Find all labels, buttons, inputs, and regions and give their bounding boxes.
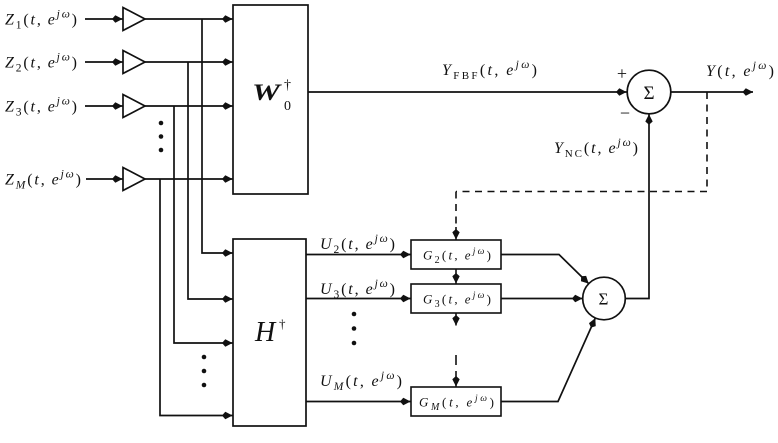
svg-text:W: W <box>252 80 282 105</box>
node ZM input label <box>5 169 81 192</box>
plus sign <box>617 64 627 84</box>
svg-text:Σ: Σ <box>643 83 654 104</box>
wire A3 to W0 <box>145 105 233 107</box>
wire ZM input arrow <box>86 178 123 180</box>
amplifier A2 <box>123 51 145 74</box>
ellipsis U channels <box>352 312 357 346</box>
wire arrow G2 to G3 <box>455 270 457 284</box>
svg-text:−: − <box>620 103 630 123</box>
svg-text:YNC(t, ejω): YNC(t, ejω) <box>554 137 638 160</box>
node Y output label <box>706 60 774 80</box>
block GM adaptive filter <box>411 387 501 416</box>
wire G2 to sum2 <box>501 255 589 284</box>
block W0 fixed beamformer <box>233 5 308 194</box>
wire A2 to W0 <box>145 61 233 63</box>
wire arrow into GM <box>455 371 457 387</box>
wire UM from H to GM <box>306 401 411 403</box>
minus sign <box>620 103 630 123</box>
svg-text:+: + <box>617 64 627 84</box>
svg-text:†: † <box>279 316 286 331</box>
svg-text:H: H <box>254 317 277 348</box>
svg-text:UM(t, ejω): UM(t, ejω) <box>320 370 402 393</box>
sum node S1 <box>627 70 671 114</box>
node UM label <box>320 370 402 393</box>
svg-text:Σ: Σ <box>599 290 609 309</box>
sum node S2 <box>583 277 626 320</box>
svg-text:0: 0 <box>284 99 291 114</box>
wire GM to sum2 <box>501 318 595 401</box>
svg-text:Z3(t, ejω): Z3(t, ejω) <box>5 96 77 119</box>
amplifier A3 <box>123 95 145 118</box>
node YNC label <box>554 137 638 160</box>
svg-text:U3(t, ejω): U3(t, ejω) <box>320 278 395 301</box>
wire branch 1 to H <box>202 19 233 253</box>
wire G3 to sum2 <box>501 298 582 300</box>
block H blocking matrix <box>233 239 306 426</box>
wire dash segment above GM <box>455 355 457 365</box>
node U3 label <box>320 278 395 301</box>
block G3 adaptive filter <box>411 284 501 313</box>
wire sum2 to sum1 <box>625 114 649 298</box>
svg-text:†: † <box>284 78 291 93</box>
svg-text:Z2(t, ejω): Z2(t, ejω) <box>5 52 77 75</box>
wire A1 to W0 <box>145 18 233 20</box>
ellipsis H inputs <box>202 355 207 388</box>
block G2 adaptive filter <box>411 240 501 269</box>
wire AM to W0 <box>145 178 233 180</box>
wire arrow below G3 <box>455 314 457 326</box>
svg-text:ZM(t, ejω): ZM(t, ejω) <box>5 169 81 192</box>
svg-text:U2(t, ejω): U2(t, ejω) <box>320 233 395 256</box>
wire Z2 input arrow <box>85 61 123 63</box>
wire dashed feedback into G2 <box>455 192 457 240</box>
wire U2 from H to G2 <box>306 254 411 256</box>
svg-text:Y(t, ejω): Y(t, ejω) <box>706 60 774 80</box>
wire branch 3 to H <box>174 106 233 343</box>
node YFBF label <box>442 59 537 82</box>
ellipsis input channels <box>159 121 164 153</box>
node Z3 input label <box>5 96 77 119</box>
wire YFBF to sum1 <box>308 91 627 93</box>
wire branch 2 to H <box>188 62 233 299</box>
wire output Y <box>671 91 753 93</box>
node Z2 input label <box>5 52 77 75</box>
wire U3 from H to G3 <box>306 298 411 300</box>
wire Z3 input arrow <box>85 105 123 107</box>
svg-text:Z1(t, ejω): Z1(t, ejω) <box>5 9 77 32</box>
wire dashed feedback vertical from output <box>706 92 708 192</box>
amplifier AM <box>123 168 145 191</box>
wire Z1 input arrow <box>85 18 123 20</box>
wire dashed feedback horizontal <box>456 191 707 193</box>
node Z1 input label <box>5 9 77 32</box>
wire branch M to H <box>160 179 233 416</box>
svg-text:YFBF(t, ejω): YFBF(t, ejω) <box>442 59 537 82</box>
node U2 label <box>320 233 395 256</box>
amplifier A1 <box>123 8 145 31</box>
